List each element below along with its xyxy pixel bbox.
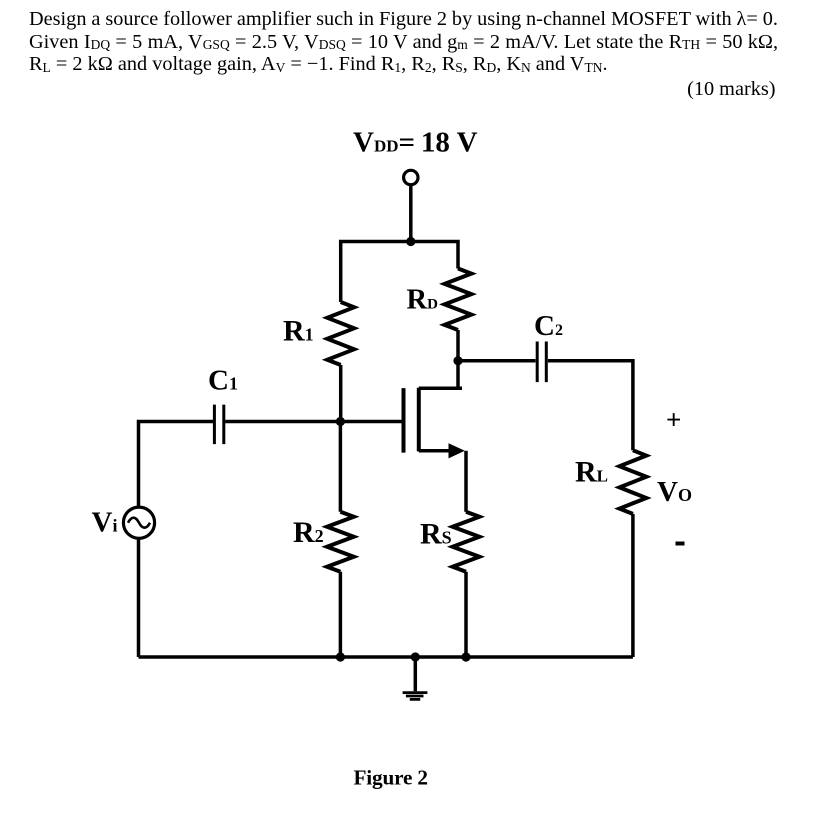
svg-text:RL: RL [575, 456, 608, 489]
svg-text:VDD= 18 V: VDD= 18 V [353, 127, 478, 159]
svg-text:C1: C1 [208, 365, 238, 397]
svg-text:R1: R1 [283, 315, 314, 348]
svg-text:+: + [666, 405, 681, 435]
svg-text:Figure 2: Figure 2 [354, 766, 428, 790]
svg-text:RS: RS [420, 518, 452, 551]
svg-text:C2: C2 [534, 310, 563, 342]
svg-text:Vi: Vi [92, 506, 118, 538]
svg-text:VO: VO [657, 476, 692, 508]
svg-text:R2: R2 [293, 516, 324, 549]
svg-text:RD: RD [407, 285, 439, 316]
